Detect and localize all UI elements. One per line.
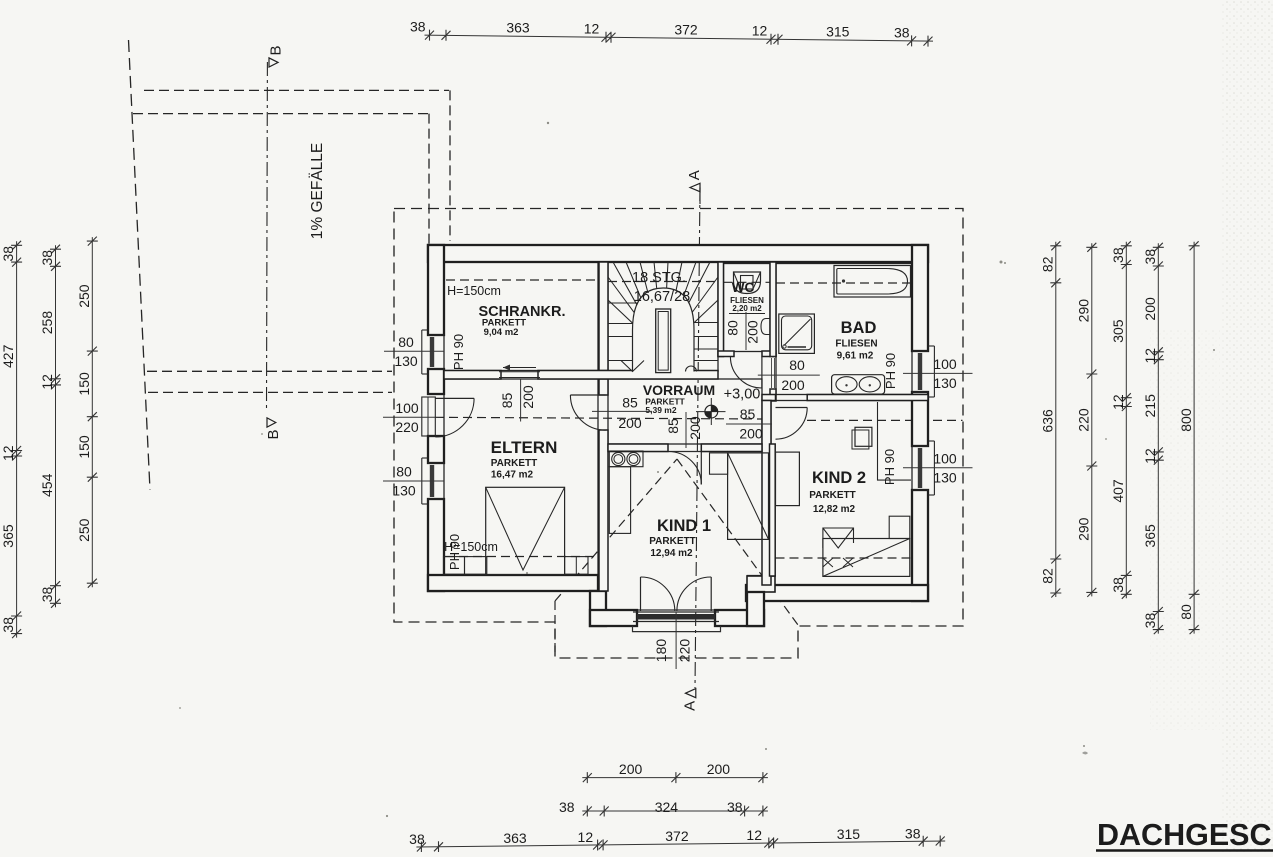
svg-text:12: 12 (1142, 448, 1158, 464)
bay west wall (590, 591, 606, 626)
bay south wall segments (590, 610, 637, 626)
svg-text:80: 80 (396, 464, 412, 480)
interior wall WC/BAD (770, 262, 776, 357)
svg-text:130: 130 (933, 469, 957, 485)
right chain 1 (1055, 242, 1057, 597)
window BAD east (100/130) (933, 346, 935, 397)
door leaf+swing ELTERN west (435, 397, 474, 399)
ELTERN cupboards SW (444, 557, 465, 575)
roof outline below (dashed) inner (133, 113, 429, 115)
double washbasin (832, 375, 885, 394)
interior wall corridor (SCHRANKR+stairs south) (444, 371, 501, 380)
svg-text:12: 12 (752, 23, 768, 39)
svg-text:636: 636 (1040, 409, 1056, 433)
roof outline below (dashed) outer (144, 89, 449, 91)
scan specks (179, 122, 1215, 817)
svg-text:200: 200 (781, 377, 805, 393)
svg-text:200: 200 (618, 415, 642, 431)
svg-text:454: 454 (39, 473, 55, 497)
room WC floor outline (724, 264, 771, 352)
svg-text:85: 85 (499, 393, 515, 409)
left chain 3 (91, 237, 93, 587)
svg-text:FLIESEN: FLIESEN (835, 339, 877, 350)
svg-text:38: 38 (1142, 613, 1158, 629)
svg-text:363: 363 (506, 20, 530, 36)
svg-text:180: 180 (653, 639, 669, 663)
roof valley dashed east branch (677, 459, 798, 625)
dims 180/220 bay door (rotated) (675, 612, 677, 669)
svg-text:PARKETT: PARKETT (491, 458, 537, 469)
ELTERN cupboard SE (565, 557, 588, 575)
svg-text:12: 12 (0, 445, 16, 461)
section marker B bottom (267, 418, 276, 427)
svg-text:12: 12 (578, 829, 594, 845)
section marker A bottom (686, 689, 696, 698)
svg-text:80: 80 (1178, 604, 1194, 620)
svg-text:12: 12 (1142, 348, 1158, 364)
svg-text:315: 315 (826, 24, 850, 40)
svg-text:38: 38 (410, 18, 426, 34)
svg-text:PARKETT: PARKETT (649, 536, 695, 547)
svg-text:KIND 2: KIND 2 (812, 469, 866, 487)
bay east wall (747, 576, 775, 592)
svg-text:200: 200 (520, 385, 536, 409)
svg-text:12: 12 (39, 374, 55, 390)
svg-text:PARKETT: PARKETT (809, 490, 855, 501)
svg-text:38: 38 (727, 799, 743, 815)
svg-text:12: 12 (1110, 394, 1126, 410)
level marker circle (705, 405, 718, 418)
svg-text:16,67/28: 16,67/28 (634, 289, 690, 305)
eaves overhang outline dashed (394, 209, 963, 659)
svg-text:38: 38 (0, 246, 16, 262)
svg-text:A: A (682, 701, 699, 711)
KIND2 nightstand S (889, 516, 910, 538)
svg-text:215: 215 (1142, 394, 1158, 418)
dims 100/130 KIND2 window (903, 467, 973, 469)
svg-text:290: 290 (1076, 299, 1092, 323)
interior wall VORRAUM south / KIND1 north (608, 444, 668, 452)
room KIND2 floor outline (771, 401, 912, 593)
svg-text:82: 82 (1040, 256, 1056, 272)
svg-text:363: 363 (503, 830, 527, 846)
svg-text:220: 220 (677, 639, 693, 663)
site boundary slanted dashed (129, 40, 151, 490)
WC vent pipe (761, 319, 770, 335)
roof lower edge dashed lines (147, 370, 392, 372)
room SCHRANKR floor outline (444, 261, 598, 371)
svg-text:100: 100 (395, 400, 419, 416)
svg-text:82: 82 (1040, 568, 1056, 584)
bottom 38/324/38 chain (582, 810, 768, 812)
bottom dimension chain (416, 841, 945, 847)
interior wall SCHRANKR/stairs + ELTERN/VORRAUM-KIND1 (599, 262, 608, 371)
svg-text:12: 12 (746, 827, 762, 843)
KIND2 bed foot marks (823, 558, 853, 567)
door ELTERN-VORRAUM leaf+swing (570, 394, 605, 396)
svg-text:100: 100 (933, 450, 957, 466)
top dimension chain (425, 35, 934, 41)
svg-text:H=150cm: H=150cm (447, 284, 501, 298)
outer wall south west part (428, 575, 598, 591)
shower (779, 314, 815, 353)
svg-text:12,94 m2: 12,94 m2 (650, 548, 693, 559)
svg-text:407: 407 (1110, 479, 1126, 503)
svg-text:WC: WC (732, 280, 755, 295)
svg-text:250: 250 (76, 284, 92, 308)
svg-text:12,82 m2: 12,82 m2 (813, 504, 856, 515)
svg-text:38: 38 (0, 617, 16, 633)
dims 100/220 ELTERN french door (383, 416, 435, 418)
svg-text:38: 38 (409, 831, 425, 847)
svg-text:800: 800 (1178, 408, 1194, 432)
svg-text:5,39 m2: 5,39 m2 (645, 405, 676, 415)
stair treads horizontal (608, 303, 718, 361)
bottom 200/200 chain (582, 777, 768, 779)
window ELTERN west (80/130) (421, 458, 423, 504)
svg-text:16,47 m2: 16,47 m2 (491, 470, 534, 481)
svg-text:B: B (268, 45, 285, 55)
ELTERN bed (486, 487, 565, 574)
svg-text:PH 90: PH 90 (882, 449, 897, 485)
stair hall floor outline (608, 262, 718, 372)
door KIND1 leaf+swing (700, 452, 702, 485)
svg-text:PH 90: PH 90 (883, 353, 898, 389)
KIND1 washstand unit (609, 451, 643, 467)
svg-text:200: 200 (619, 761, 643, 777)
section line A (695, 187, 700, 688)
dims 80/130 ELTERN window (383, 480, 444, 482)
door WC leaf+swing (761, 357, 763, 389)
interior wall BAD south / KIND2 north (762, 395, 776, 401)
room VORRAUM floor outline (608, 379, 762, 444)
KIND2 nightstand N (855, 427, 872, 446)
svg-text:BAD: BAD (841, 319, 877, 337)
stair entry arrow V (621, 361, 644, 372)
right chain 4 (1157, 243, 1159, 633)
KIND1 shelf (609, 467, 630, 534)
french door ELTERN west (100/220) (422, 397, 436, 436)
dims 85/200 KIND1 door (rotated) (685, 412, 687, 448)
svg-text:220: 220 (1076, 408, 1092, 432)
svg-text:12: 12 (584, 21, 600, 37)
svg-text:365: 365 (0, 524, 16, 548)
svg-text:38: 38 (1110, 247, 1126, 263)
svg-text:A: A (686, 170, 703, 180)
section line B (266, 62, 269, 408)
svg-text:200: 200 (687, 416, 703, 440)
dims 80/200 BAD door (758, 374, 820, 376)
svg-text:38: 38 (559, 799, 575, 815)
svg-text:80: 80 (725, 320, 741, 336)
svg-text:38: 38 (1110, 577, 1126, 593)
svg-text:PH 90: PH 90 (451, 334, 466, 370)
door KIND2 leaf+swing (776, 407, 808, 409)
svg-text:100: 100 (933, 356, 957, 372)
outer wall east segments (912, 245, 928, 351)
roof valley dashed west branch (555, 459, 677, 601)
window SCHRANKR west (80/130) (421, 330, 423, 374)
svg-text:38: 38 (39, 250, 55, 266)
svg-text:220: 220 (395, 419, 419, 435)
svg-text:+3,00: +3,00 (724, 387, 761, 403)
svg-text:324: 324 (655, 799, 679, 815)
door BAD jambs (770, 356, 776, 358)
svg-text:130: 130 (392, 483, 416, 499)
svg-text:KIND 1: KIND 1 (657, 517, 711, 535)
svg-text:200: 200 (1142, 297, 1158, 321)
interior wall KIND1/KIND2 (770, 444, 776, 576)
bay exterior step (633, 626, 721, 632)
svg-text:85: 85 (622, 395, 638, 411)
svg-text:9,04 m2: 9,04 m2 (484, 327, 519, 338)
left chain 2 (55, 245, 57, 607)
KIND1 bed (728, 453, 769, 540)
dims 85/200 SCHRANKR door (rotated) (520, 379, 522, 422)
dims 80/200 WC (rotated) (745, 312, 747, 350)
svg-text:305: 305 (1110, 319, 1126, 343)
svg-text:150: 150 (76, 435, 92, 459)
svg-text:38: 38 (894, 24, 910, 40)
KIND2 wardrobe (776, 452, 800, 506)
window KIND2 east (100/130) (933, 441, 935, 495)
svg-text:372: 372 (665, 828, 689, 844)
stair spine (656, 309, 671, 373)
svg-text:85: 85 (665, 418, 681, 434)
outer wall west (segments between openings) (428, 245, 444, 335)
svg-text:258: 258 (39, 311, 55, 335)
toilet WC (734, 272, 761, 294)
svg-text:315: 315 (837, 826, 861, 842)
dims 85/200 ELTERN door (592, 410, 652, 412)
svg-text:200: 200 (739, 426, 763, 442)
bay door threshold hatch (637, 614, 715, 620)
KIND2 niche line (878, 402, 912, 480)
interior wall KIND2 west (762, 401, 771, 586)
outer wall north (428, 245, 928, 262)
room ELTERN floor outline (444, 379, 598, 575)
H=150 dashed line ELTERN (445, 556, 597, 558)
svg-text:200: 200 (745, 320, 761, 344)
bathtub (834, 266, 911, 298)
svg-text:372: 372 (674, 22, 698, 38)
svg-text:9,61 m2: 9,61 m2 (837, 351, 874, 362)
svg-text:38: 38 (39, 587, 55, 603)
svg-text:ELTERN: ELTERN (491, 438, 558, 457)
svg-text:80: 80 (398, 334, 414, 350)
svg-text:200: 200 (707, 761, 731, 777)
svg-text:250: 250 (76, 518, 92, 542)
dashed line KIND2 north (807, 419, 963, 421)
svg-text:130: 130 (933, 375, 957, 391)
svg-text:1% GEFÄLLE: 1% GEFÄLLE (309, 143, 326, 240)
interior wall stairs/WC (718, 262, 724, 357)
svg-text:80: 80 (789, 357, 805, 373)
KIND2 bed (823, 539, 910, 577)
stair treads fan (608, 262, 718, 352)
right chain 2 (1091, 243, 1093, 596)
H=150 dashed line north strip (446, 279, 596, 281)
stair handrail arch (masks fan inside) (633, 288, 695, 372)
smudge bottom right (1082, 752, 1088, 755)
svg-text:18 STG.: 18 STG. (632, 270, 686, 286)
svg-text:38: 38 (905, 825, 921, 841)
room KIND1 floor outline (599, 452, 770, 611)
svg-text:150: 150 (76, 372, 92, 396)
KIND1 nightstand (710, 453, 728, 474)
svg-text:B: B (265, 429, 282, 439)
svg-text:38: 38 (1142, 249, 1158, 265)
room BAD floor outline (776, 264, 912, 395)
right chain 5 (1193, 242, 1195, 634)
svg-text:290: 290 (1076, 517, 1092, 541)
svg-text:85: 85 (740, 406, 756, 422)
right chain 3 (1125, 242, 1127, 599)
dashed line across VORRAUM (435, 417, 762, 419)
svg-text:365: 365 (1142, 524, 1158, 548)
dims 80/130 SCHRANKR window (384, 350, 444, 352)
svg-text:427: 427 (0, 344, 16, 368)
outer wall south east part (KIND2) (746, 585, 928, 601)
interior wall WC south segments (718, 351, 734, 357)
svg-text:DACHGESCHOSS: DACHGESCHOSS (1097, 818, 1273, 852)
svg-text:2,20 m2: 2,20 m2 (732, 304, 762, 313)
french double door leaves + swings (KIND1 balcony) (640, 577, 642, 611)
KIND2 pillow (823, 528, 854, 548)
door SCHRANKR (sliding, threshold + arrow) (499, 371, 540, 373)
stair half-circle bottom (686, 366, 697, 372)
svg-text:PH 90: PH 90 (447, 534, 462, 570)
svg-text:130: 130 (394, 353, 418, 369)
left chain 1 (16, 241, 18, 637)
H=150 dashed line KIND2 (776, 557, 912, 559)
dims 85/200 KIND2 door (726, 423, 772, 425)
dims 100/130 BAD window (903, 372, 973, 374)
